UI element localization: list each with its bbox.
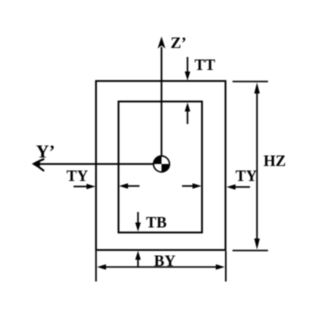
HZ bottom extension tick — [233, 250, 269, 252]
TB dimension: up arrow below bottom flange — [137, 257, 139, 267]
Z' axis arrowhead — [158, 37, 166, 49]
TB dimension: down arrow inside hollow — [137, 212, 139, 224]
svg-text:Y’: Y’ — [36, 142, 55, 162]
inner rectangle (hollow) — [119, 102, 203, 233]
HZ dimension line — [256, 92, 258, 241]
svg-text:HZ: HZ — [264, 153, 286, 170]
Z' axis line — [161, 47, 163, 164]
outer rectangle (section outline) — [96, 81, 226, 250]
BY right extension line — [225, 251, 227, 282]
centroid symbol — [154, 156, 170, 172]
BY dimension line — [104, 266, 218, 268]
TT dimension: down arrow above top flange — [187, 57, 189, 73]
Y' axis arrowhead — [34, 159, 44, 170]
svg-text:Z’: Z’ — [171, 35, 187, 52]
Y' axis line — [38, 163, 162, 165]
svg-text:BY: BY — [154, 253, 176, 270]
svg-text:TT: TT — [195, 57, 216, 74]
TY inner-left arrow: left arrow at inner left wall — [127, 185, 140, 187]
TT dimension: up arrow inside hollow — [187, 110, 189, 124]
HZ down arrowhead — [254, 239, 260, 250]
HZ top extension tick — [233, 81, 269, 83]
svg-text:TY: TY — [67, 168, 89, 185]
BY left arrowhead — [97, 264, 106, 270]
svg-text:TB: TB — [146, 215, 167, 232]
TY right dimension: left arrow at outer right wall — [234, 186, 250, 188]
HZ up arrowhead — [254, 83, 260, 94]
svg-text:TY: TY — [236, 168, 258, 185]
TY inner-right arrow: right arrow at inner right wall — [182, 185, 194, 187]
TY left dimension: right arrow at outer left wall — [74, 186, 89, 188]
BY left extension line — [95, 251, 97, 282]
BY right arrowhead — [216, 264, 225, 270]
